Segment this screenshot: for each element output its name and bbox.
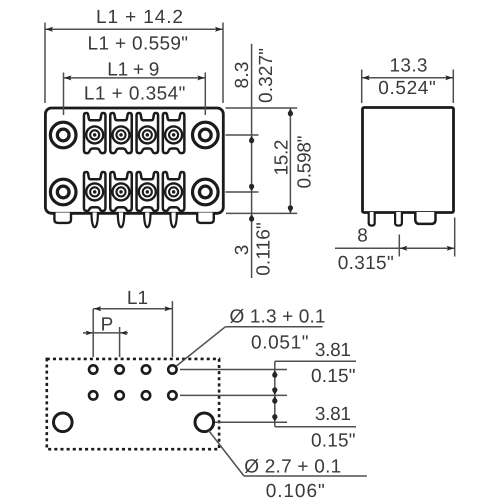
drill plan: hole 1.3mm row1 #2 xyxy=(115,365,123,373)
front view: connector body outline xyxy=(45,108,223,213)
svg-text:3: 3 xyxy=(232,245,253,256)
leader line to 1.3mm hole xyxy=(176,327,225,366)
dim 3.81 upper: top arrow xyxy=(272,370,277,374)
svg-text:0.524": 0.524" xyxy=(378,78,436,99)
svg-text:P: P xyxy=(101,314,114,335)
drill plan: hole 2.7mm left xyxy=(54,413,73,432)
drill plan: hole 1.3mm row1 #4 xyxy=(168,365,176,373)
dim 8.3/3: vertical dimension line xyxy=(251,44,253,278)
svg-text:0.315": 0.315" xyxy=(338,253,394,274)
svg-text:0.15": 0.15" xyxy=(311,430,356,451)
svg-text:Ø 1.3 + 0.1: Ø 1.3 + 0.1 xyxy=(230,307,326,328)
front view: contact module row2 #1 xyxy=(84,172,106,211)
front view: flange bush bottom-left circles xyxy=(50,179,76,205)
ext line: hole row1 right xyxy=(180,369,287,371)
drill plan: hole 1.3mm row2 #2 xyxy=(115,391,123,399)
dim 8: dimension line xyxy=(335,247,455,249)
front view: contact module row1 #2 xyxy=(110,113,132,153)
label shelf 1.3mm xyxy=(225,326,322,328)
side view: pin 2 xyxy=(395,212,402,226)
svg-text:3.81: 3.81 xyxy=(315,404,351,425)
front view: solder pin #4 xyxy=(170,213,176,228)
side view: pin 1 xyxy=(369,212,375,226)
front view: flange bush top-right circles xyxy=(193,122,219,148)
dim P: right arrow (outside) xyxy=(120,331,127,336)
dim 8: left arrow xyxy=(400,246,407,251)
front view: contact rings row2 #3 xyxy=(139,183,156,200)
dim 3: arrow at body bottom xyxy=(249,214,254,218)
front view: contact rings row1 #3 xyxy=(139,126,156,143)
dim L1+14.2: left arrow xyxy=(46,27,53,32)
front view: right solder tab xyxy=(197,213,214,223)
dim L1+9: left extension line xyxy=(63,73,65,116)
front view: contact rings row2 #2 xyxy=(113,183,130,200)
front view: contact module row1 #3 xyxy=(137,113,159,153)
side view: body outline xyxy=(363,108,454,213)
dim L1+14.2: right extension line xyxy=(222,23,224,104)
svg-text:0.15": 0.15" xyxy=(311,366,356,387)
svg-text:15.2: 15.2 xyxy=(271,140,292,176)
dim L1+14.2: right arrow xyxy=(215,27,222,32)
svg-text:8.3: 8.3 xyxy=(232,62,253,89)
dim L1+14.2: dimension line xyxy=(45,28,223,30)
dim 3.81: vertical dimension line xyxy=(274,361,276,427)
dim 8: left extension line xyxy=(398,235,400,257)
front view: contact rings row1 #4 xyxy=(165,126,182,143)
drill plan: hole 2.7mm right xyxy=(195,413,214,432)
svg-text:0.327": 0.327" xyxy=(256,48,277,103)
front view: contact module row2 #4 xyxy=(163,172,185,211)
dim L1+9: right arrow xyxy=(197,75,204,80)
drill plan: hole 1.3mm row2 #3 xyxy=(142,391,150,399)
dim P: left arrow (outside) xyxy=(86,331,93,336)
dim 3.81 lower: top arrow xyxy=(272,396,277,400)
dim 8: right arrow xyxy=(447,246,454,251)
dim 13.3: dimension line xyxy=(362,77,454,79)
dim L1+9: right extension line xyxy=(204,73,206,116)
dim L1 (bottom): ext line hole4 xyxy=(171,301,173,357)
svg-text:L1: L1 xyxy=(127,288,148,309)
drill plan: hole 1.3mm row1 #1 xyxy=(89,365,97,373)
svg-text:13.3: 13.3 xyxy=(390,55,428,76)
dim 3.81 lower: bottom arrow xyxy=(272,417,277,421)
dim 13.3: left extension line xyxy=(361,70,363,104)
ext line: hole 2.7 right xyxy=(215,421,287,423)
svg-text:0.116": 0.116" xyxy=(253,222,274,276)
drill plan: hole 1.3mm row2 #4 xyxy=(168,391,176,399)
dim: arrow at row2 xyxy=(249,187,254,191)
dim 15.2: vertical dimension line xyxy=(289,108,291,213)
ext line: row2 centre xyxy=(226,191,259,193)
ext line: hole row2 right xyxy=(180,394,287,396)
front view: left solder tab xyxy=(54,213,71,223)
dim P: dimension line xyxy=(83,332,128,334)
dim L1+9: dimension line xyxy=(64,77,206,79)
drill plan: hole 1.3mm row1 #3 xyxy=(142,365,150,373)
front view: flange bush bottom-right circles xyxy=(193,179,219,205)
ext line: body bottom right xyxy=(226,212,297,214)
dim L1+9: left arrow xyxy=(64,75,71,80)
dim 3.81: upper shelf line xyxy=(275,360,356,362)
dim L1 (bottom): dimension line xyxy=(93,308,172,310)
dim L1 (bottom): right arrow xyxy=(164,306,171,311)
svg-text:0.106": 0.106" xyxy=(266,481,325,500)
dim 8: right extension line xyxy=(454,218,456,257)
dim 13.3: right arrow xyxy=(445,75,452,80)
front view: solder pin #1 xyxy=(92,213,98,228)
svg-text:8: 8 xyxy=(357,225,368,246)
drill plan: dashed board outline xyxy=(47,359,219,449)
ext line: row1 centre xyxy=(226,134,259,136)
svg-text:L1 + 9: L1 + 9 xyxy=(107,59,159,80)
dim L1 (bottom): left arrow xyxy=(94,306,101,311)
front view: solder pin #3 xyxy=(144,213,150,228)
dim 8.3: arrow at row1 xyxy=(249,136,254,140)
dim 13.3: left arrow xyxy=(362,75,369,80)
front view: solder pin #2 xyxy=(118,213,124,228)
svg-text:L1 + 0.559": L1 + 0.559" xyxy=(88,34,189,55)
svg-text:3.81: 3.81 xyxy=(315,340,351,361)
svg-text:Ø 2.7 + 0.1: Ø 2.7 + 0.1 xyxy=(244,456,341,477)
dim 3.81: lower shelf line xyxy=(275,426,356,428)
front view: contact module row1 #1 xyxy=(84,113,106,153)
label shelf 2.7mm xyxy=(244,475,367,477)
front view: contact rings row2 #1 xyxy=(86,183,103,200)
svg-text:0.598": 0.598" xyxy=(295,136,316,189)
side view: locating peg xyxy=(415,212,435,224)
svg-text:L1 + 14.2: L1 + 14.2 xyxy=(96,7,183,28)
front view: contact module row2 #2 xyxy=(110,172,132,211)
svg-text:0.051": 0.051" xyxy=(251,333,309,354)
dim 3.81 upper: bottom arrow xyxy=(272,391,277,395)
dim P: ext line hole2 xyxy=(119,327,121,357)
front view: flange bush top-left circles xyxy=(50,122,76,148)
dim 15.2: top arrow xyxy=(288,109,293,113)
ext line: body top right xyxy=(226,107,298,109)
front view: contact rings row1 #2 xyxy=(113,126,130,143)
front view: contact module row1 #4 xyxy=(163,113,185,153)
front view: contact module row2 #3 xyxy=(137,172,159,211)
svg-text:L1 + 0.354": L1 + 0.354" xyxy=(84,84,186,105)
dim L1+14.2: left extension line xyxy=(44,23,46,104)
leader line to 2.7mm hole xyxy=(209,430,245,476)
front view: contact rings row1 #1 xyxy=(86,126,103,143)
drill plan: hole 1.3mm row2 #1 xyxy=(89,391,97,399)
front view: contact rings row2 #4 xyxy=(165,183,182,200)
dim 13.3: right extension line xyxy=(452,70,454,104)
dim 15.2: bottom arrow xyxy=(288,209,293,213)
dim L1 (bottom): ext line hole1 xyxy=(92,309,94,357)
